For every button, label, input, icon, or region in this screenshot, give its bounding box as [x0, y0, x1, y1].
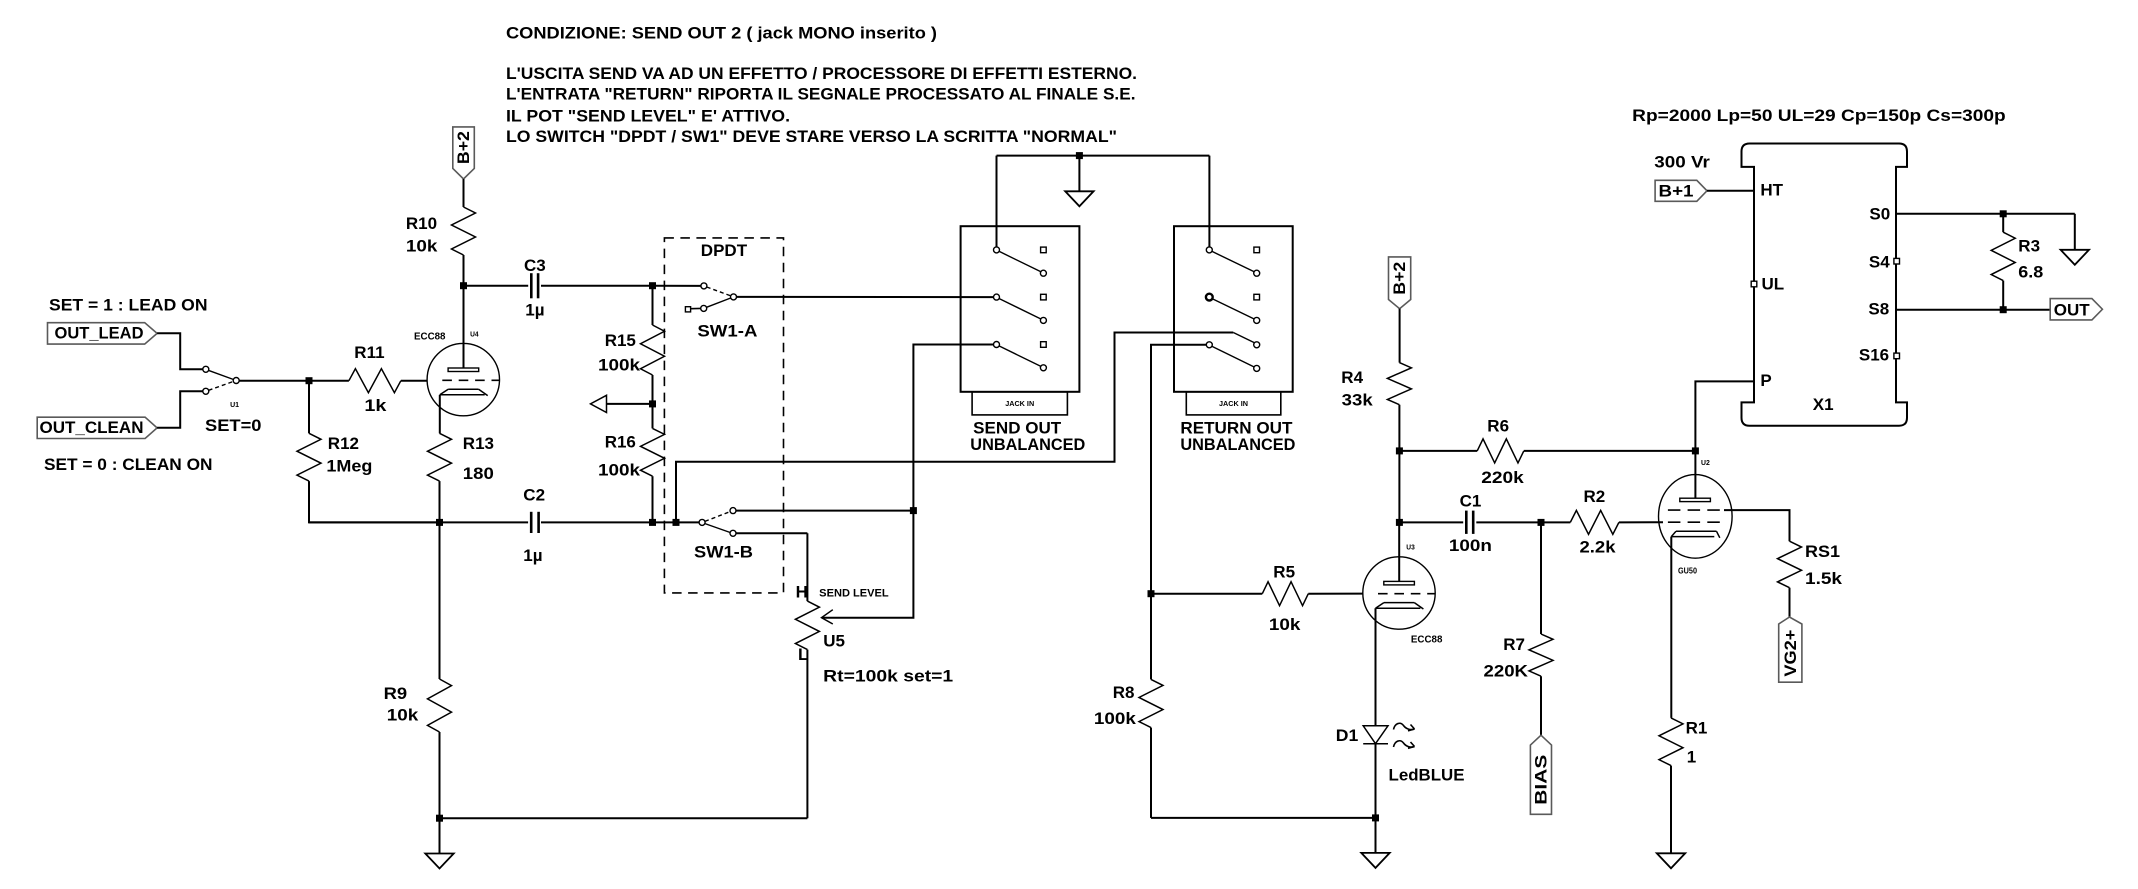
svg-text:B+2: B+2: [454, 131, 473, 164]
svg-text:R15: R15: [605, 331, 636, 350]
svg-text:R5: R5: [1273, 563, 1295, 582]
svg-text:GU50: GU50: [1678, 566, 1697, 576]
svg-text:6.8: 6.8: [2018, 262, 2043, 281]
svg-text:JACK IN: JACK IN: [1005, 399, 1034, 408]
svg-text:B+1: B+1: [1659, 181, 1694, 200]
svg-text:B+2: B+2: [1390, 262, 1409, 295]
svg-text:C3: C3: [524, 256, 546, 275]
svg-text:U1: U1: [230, 402, 239, 409]
svg-text:R8: R8: [1113, 683, 1135, 702]
svg-text:R10: R10: [406, 214, 437, 233]
svg-text:R11: R11: [354, 343, 384, 362]
svg-text:Rt=100k set=1: Rt=100k set=1: [823, 667, 953, 686]
svg-text:L'USCITA SEND VA AD UN EFFETTO: L'USCITA SEND VA AD UN EFFETTO / PROCESS…: [506, 64, 1137, 83]
svg-text:C2: C2: [523, 485, 545, 504]
svg-text:X1: X1: [1813, 395, 1834, 414]
svg-text:U3: U3: [1406, 545, 1415, 552]
svg-text:ECC88: ECC88: [414, 331, 446, 343]
svg-text:R3: R3: [2018, 236, 2040, 255]
svg-text:L: L: [798, 645, 808, 664]
svg-text:1µ: 1µ: [525, 301, 544, 320]
svg-text:SET=0: SET=0: [205, 416, 262, 435]
svg-text:L'ENTRATA "RETURN" RIPORTA IL: L'ENTRATA "RETURN" RIPORTA IL SEGNALE PR…: [506, 84, 1136, 103]
svg-text:R16: R16: [605, 433, 636, 452]
svg-text:BIAS: BIAS: [1532, 755, 1551, 805]
svg-text:R7: R7: [1503, 635, 1525, 654]
svg-text:1µ: 1µ: [523, 546, 542, 565]
svg-text:R13: R13: [463, 434, 494, 453]
svg-text:10k: 10k: [406, 237, 438, 256]
svg-text:S0: S0: [1869, 205, 1890, 224]
svg-text:UNBALANCED: UNBALANCED: [970, 435, 1085, 454]
svg-text:U5: U5: [823, 631, 845, 650]
svg-text:R9: R9: [384, 684, 408, 703]
svg-text:2.2k: 2.2k: [1580, 538, 1617, 557]
svg-text:SW1-A: SW1-A: [697, 322, 757, 341]
svg-text:1: 1: [1687, 747, 1696, 766]
svg-text:10k: 10k: [1269, 615, 1301, 634]
svg-text:CONDIZIONE: SEND OUT 2 ( jack: CONDIZIONE: SEND OUT 2 ( jack MONO inser…: [506, 23, 937, 42]
svg-text:U4: U4: [470, 332, 479, 339]
svg-text:SEND LEVEL: SEND LEVEL: [819, 588, 889, 600]
svg-text:SW1-B: SW1-B: [694, 542, 753, 561]
svg-text:HT: HT: [1760, 181, 1783, 200]
svg-text:UL: UL: [1762, 275, 1785, 294]
svg-text:R1: R1: [1686, 719, 1708, 738]
svg-text:SET = 0 : CLEAN ON: SET = 0 : CLEAN ON: [44, 455, 213, 474]
svg-text:R6: R6: [1487, 416, 1509, 435]
svg-text:220k: 220k: [1481, 468, 1524, 487]
svg-text:R4: R4: [1341, 368, 1363, 387]
svg-text:LedBLUE: LedBLUE: [1389, 765, 1465, 784]
svg-text:S16: S16: [1859, 346, 1889, 365]
svg-text:100k: 100k: [1094, 709, 1137, 728]
svg-text:100n: 100n: [1449, 536, 1492, 555]
svg-text:IL POT "SEND LEVEL" E' ATTIVO.: IL POT "SEND LEVEL" E' ATTIVO.: [506, 106, 790, 125]
svg-text:100k: 100k: [598, 460, 641, 479]
svg-text:UNBALANCED: UNBALANCED: [1180, 435, 1295, 454]
svg-text:SET = 1 : LEAD ON: SET = 1 : LEAD ON: [49, 296, 208, 315]
svg-text:LO SWITCH "DPDT / SW1" DEVE ST: LO SWITCH "DPDT / SW1" DEVE STARE VERSO …: [506, 127, 1117, 146]
svg-text:P: P: [1760, 371, 1771, 390]
svg-text:DPDT: DPDT: [701, 241, 748, 260]
svg-text:C1: C1: [1460, 491, 1482, 510]
svg-text:OUT_CLEAN: OUT_CLEAN: [40, 418, 144, 437]
svg-text:220K: 220K: [1484, 662, 1529, 681]
svg-text:R2: R2: [1584, 487, 1606, 506]
svg-text:Rp=2000 Lp=50 UL=29 Cp=150p Cs: Rp=2000 Lp=50 UL=29 Cp=150p Cs=300p: [1632, 106, 2006, 125]
svg-text:33k: 33k: [1342, 390, 1374, 409]
svg-text:1Meg: 1Meg: [326, 457, 372, 476]
svg-text:S4: S4: [1869, 252, 1890, 271]
svg-text:RS1: RS1: [1805, 542, 1840, 561]
svg-text:100k: 100k: [598, 355, 641, 374]
svg-text:JACK IN: JACK IN: [1219, 399, 1248, 408]
svg-text:180: 180: [463, 464, 494, 483]
svg-text:300 Vr: 300 Vr: [1654, 153, 1710, 172]
svg-text:U2: U2: [1701, 460, 1710, 467]
svg-text:H: H: [796, 582, 808, 601]
svg-text:10k: 10k: [387, 706, 419, 725]
svg-text:VG2+: VG2+: [1781, 630, 1800, 677]
svg-text:ECC88: ECC88: [1411, 634, 1443, 646]
svg-text:D1: D1: [1336, 726, 1359, 745]
svg-text:1k: 1k: [364, 396, 387, 415]
svg-text:OUT_LEAD: OUT_LEAD: [55, 323, 144, 342]
svg-text:OUT: OUT: [2054, 300, 2091, 319]
svg-text:S8: S8: [1868, 300, 1889, 319]
svg-text:1.5k: 1.5k: [1805, 569, 1843, 588]
svg-text:R12: R12: [328, 434, 359, 453]
